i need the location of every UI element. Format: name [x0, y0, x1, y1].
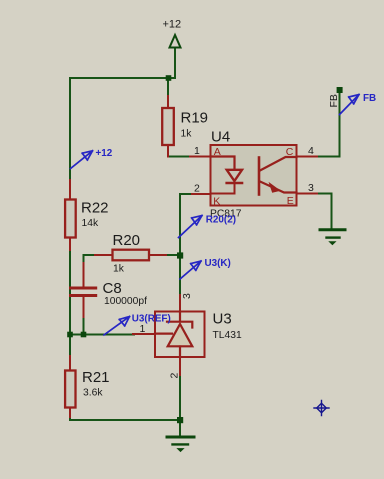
svg-text:TL431: TL431 — [213, 330, 242, 341]
svg-text:R20(2): R20(2) — [206, 215, 236, 226]
svg-text:R21: R21 — [82, 369, 110, 386]
svg-text:FB: FB — [328, 94, 340, 107]
svg-text:2: 2 — [169, 373, 181, 379]
svg-text:1: 1 — [140, 323, 146, 335]
svg-text:14k: 14k — [82, 218, 99, 229]
svg-text:1k: 1k — [113, 264, 125, 275]
svg-text:U4: U4 — [211, 129, 230, 146]
svg-text:U3(REF): U3(REF) — [132, 314, 171, 325]
svg-text:+12: +12 — [163, 19, 182, 31]
svg-text:2: 2 — [194, 183, 200, 195]
svg-text:C8: C8 — [103, 280, 122, 297]
svg-text:K: K — [213, 196, 220, 208]
svg-text:A: A — [214, 146, 221, 158]
svg-text:E: E — [287, 195, 294, 207]
svg-text:R20: R20 — [113, 232, 141, 249]
svg-text:FB: FB — [363, 93, 376, 104]
svg-text:3: 3 — [308, 182, 314, 194]
svg-text:U3(K): U3(K) — [205, 258, 231, 269]
svg-text:3.6k: 3.6k — [83, 388, 103, 399]
svg-text:4: 4 — [308, 145, 314, 157]
svg-text:100000pf: 100000pf — [104, 296, 147, 307]
svg-text:U3: U3 — [213, 311, 232, 328]
svg-text:1k: 1k — [181, 129, 193, 140]
svg-text:C: C — [286, 146, 294, 158]
svg-text:1: 1 — [194, 145, 200, 157]
svg-text:R19: R19 — [181, 110, 209, 127]
svg-text:R22: R22 — [81, 200, 109, 217]
svg-text:3: 3 — [181, 293, 193, 299]
svg-text:+12: +12 — [96, 148, 113, 159]
